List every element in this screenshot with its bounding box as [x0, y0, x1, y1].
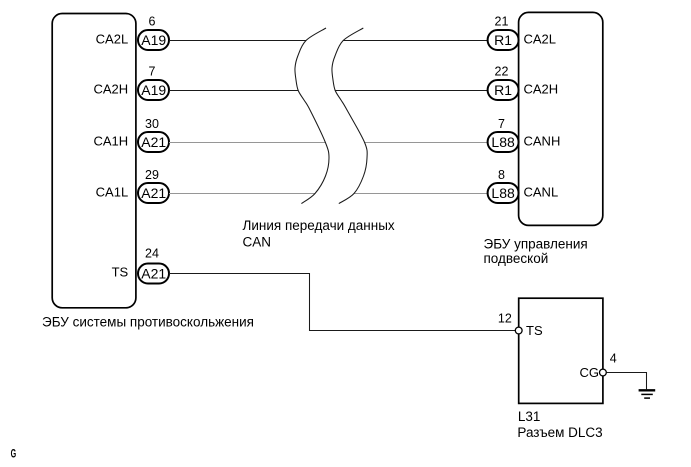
- svg-text:R1: R1: [494, 82, 512, 98]
- ground symbol: [639, 390, 656, 398]
- wire CA1L left segment (gray): [169, 193, 315, 195]
- svg-text:30: 30: [145, 117, 159, 131]
- wire CA2L right segment: [343, 40, 488, 42]
- svg-text:TS: TS: [526, 323, 543, 338]
- svg-text:L88: L88: [491, 134, 515, 150]
- connector oval A21 pin 24: [138, 264, 169, 284]
- pin circle CG (DLC3 pin 4): [600, 369, 607, 376]
- svg-text:8: 8: [498, 168, 505, 182]
- svg-text:CA2L: CA2L: [96, 32, 129, 47]
- svg-text:A19: A19: [141, 32, 166, 48]
- svg-text:L31: L31: [518, 409, 541, 424]
- svg-text:L88: L88: [491, 185, 515, 201]
- svg-text:A21: A21: [141, 266, 166, 282]
- ECU box U1: skid control ECU: [52, 14, 136, 308]
- connector oval L88 pin 7: [488, 132, 519, 152]
- wire TS to DLC3 (three segments): [169, 274, 515, 331]
- svg-text:CA2H: CA2H: [94, 82, 129, 97]
- svg-text:CA2H: CA2H: [524, 82, 559, 97]
- svg-text:CA1H: CA1H: [94, 134, 129, 149]
- svg-text:A21: A21: [141, 185, 166, 201]
- wire CA2H right segment: [335, 90, 488, 92]
- svg-text:21: 21: [495, 15, 509, 29]
- svg-text:29: 29: [145, 168, 159, 182]
- svg-text:A19: A19: [141, 82, 166, 98]
- wire CA2H left segment: [169, 90, 299, 92]
- svg-text:7: 7: [149, 64, 156, 78]
- break mark right curve: [332, 28, 367, 204]
- svg-text:A21: A21: [141, 134, 166, 150]
- svg-text:CA2L: CA2L: [524, 32, 557, 47]
- connector oval L88 pin 8: [488, 183, 519, 203]
- connector oval R1 pin 22: [488, 80, 519, 100]
- svg-text:CAN: CAN: [243, 235, 272, 250]
- svg-text:22: 22: [495, 64, 509, 78]
- svg-text:24: 24: [145, 247, 159, 261]
- svg-text:ЭБУ системы противоскольжения: ЭБУ системы противоскольжения: [42, 314, 254, 329]
- wire CA1H right segment (gray): [364, 142, 488, 144]
- connector oval R1 pin 21: [488, 30, 519, 50]
- svg-text:G: G: [11, 448, 17, 461]
- svg-text:Разъем DLC3: Разъем DLC3: [517, 425, 602, 440]
- wire CA1L right segment (gray): [354, 193, 488, 195]
- pin circle TS (DLC3 pin 12): [515, 327, 522, 334]
- svg-text:12: 12: [498, 312, 512, 326]
- svg-text:CA1L: CA1L: [96, 185, 129, 200]
- svg-text:CG: CG: [580, 365, 600, 380]
- wire CA1H left segment (gray): [169, 142, 326, 144]
- connector oval A19 pin 7: [138, 80, 169, 100]
- ECU box U2: suspension control ECU: [519, 12, 603, 225]
- svg-text:4: 4: [610, 351, 617, 365]
- svg-text:R1: R1: [494, 32, 512, 48]
- connector oval A21 pin 30: [138, 132, 169, 152]
- connector box J1: DLC3: [519, 298, 603, 403]
- svg-text:ЭБУ управления: ЭБУ управления: [484, 236, 588, 251]
- connector oval A21 pin 29: [138, 183, 169, 203]
- svg-text:7: 7: [498, 117, 505, 131]
- connector oval A19 pin 6: [138, 30, 169, 50]
- wire CG to ground: [607, 373, 647, 390]
- svg-text:подвеской: подвеской: [484, 251, 549, 266]
- svg-text:TS: TS: [112, 265, 129, 280]
- svg-text:CANH: CANH: [524, 134, 561, 149]
- break mark left curve: [295, 28, 329, 204]
- wire CA2L left segment: [169, 40, 306, 42]
- svg-text:6: 6: [149, 15, 156, 29]
- svg-text:CANL: CANL: [524, 185, 559, 200]
- svg-text:Линия передачи данных: Линия передачи данных: [243, 218, 395, 233]
